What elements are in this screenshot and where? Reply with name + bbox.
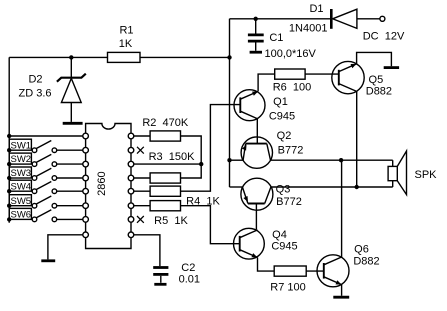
DC 12V terminal [363,16,405,42]
transistor Q1 C945 [234,90,295,123]
resistor R2 470K [142,117,189,141]
junction bus row 6 [7,204,11,208]
wire R7 to Q6 base [306,270,324,272]
svg-text:D2: D2 [28,74,42,86]
diode D1 1N4001 [289,3,357,34]
wire Q3 collector to speaker bottom [271,186,393,188]
wire top-left horizontal from left bus to R1 [9,56,107,58]
node A junction R2/R3/pin3 [199,162,203,166]
wire Q5 emitter up to ground [357,52,392,66]
resistor R3 150K [149,151,196,183]
svg-text:R6 100: R6 100 [273,82,312,94]
node junction R1 wire / vertical rail [227,55,231,59]
unconnected pin marker x on IC pin7R [137,216,144,223]
svg-text:C945: C945 [271,241,297,253]
wire Q5 collector down to speaker bottom wire [356,91,358,187]
node junction Q6 collector / speaker top wire [339,158,343,162]
wire IC pin8R to C2 [134,235,160,266]
+12V vertical rail [229,19,231,187]
wire Q4 emitter down to R7 [258,258,275,272]
zener diode D2 ZD 3.6 [18,57,85,122]
svg-text:Q3: Q3 [276,184,291,196]
transistor Q4 C945 [234,228,298,259]
svg-text:2860: 2860 [96,171,108,195]
svg-text:Q5: Q5 [369,74,384,86]
unconnected pin marker x on IC pin2R [137,147,144,154]
node junction C1 / top rail [254,17,258,21]
wire IC pin6R to R5 [134,205,150,207]
IC U1 2860 body [86,124,131,249]
speaker SPK [388,151,437,195]
switch SW6 [9,208,83,221]
ground at Q5 emitter [384,66,399,69]
wire rail bottom to Q3 emitter [230,186,243,188]
svg-text:R5 1K: R5 1K [154,215,188,227]
capacitor C1 100,0*16V [248,19,317,60]
top supply rail to D1 [230,18,332,20]
switch SW2 [9,153,83,166]
svg-text:Q1: Q1 [273,96,288,108]
wire Q2 collector to speaker top [271,159,393,161]
svg-text:R3 150K: R3 150K [149,151,196,163]
svg-text:R2 470K: R2 470K [142,117,189,129]
wire Q6 collector up to speaker top wire [341,160,343,257]
wire D1 to DC terminal [357,18,380,20]
svg-text:SW3: SW3 [11,168,32,179]
svg-text:SW1: SW1 [11,140,32,151]
wire IC pin8L to ground [48,235,83,260]
ground below C1 [250,51,262,54]
ground below IC pin8L [41,259,55,262]
svg-text:Q4: Q4 [272,229,287,241]
wire R4 up to Q1 base [181,105,241,192]
svg-text:100,0*16V: 100,0*16V [265,48,317,60]
resistor R7 100 [270,266,306,294]
resistor R4 1K [150,186,220,207]
node junction R1 / D2 [69,55,73,59]
svg-text:SW2: SW2 [11,154,32,165]
transistor Q6 D882 [317,244,380,287]
wire Q1 emitter down to Q2 base [256,119,258,144]
switch SW1 [9,139,83,152]
IC left pin circles [83,133,89,237]
svg-text:1K: 1K [119,38,133,50]
junction bus row 1 [7,134,11,138]
ground below C2 [154,283,166,286]
svg-text:B772: B772 [276,196,302,208]
switch SW3 [9,167,83,180]
svg-text:Q2: Q2 [277,130,292,142]
node junction rail / Q2 emitter [227,158,231,162]
wire Q1 collector up to R6 [258,74,275,91]
capacitor C2 0.01 [153,262,200,285]
wire R5 down to Q4 base [181,206,240,244]
IC right pin circles [128,133,134,237]
ground at Q6 emitter [333,296,349,299]
junction bus row 2 [7,148,11,152]
wire bus to IC pin 1 [9,135,83,137]
transistor Q5 D882 [332,61,392,97]
svg-text:SW6: SW6 [11,210,32,221]
svg-text:C1: C1 [269,32,283,44]
transistor Q3 B772 [241,178,302,210]
wire IC pin4R to R3 [134,177,150,179]
svg-text:D882: D882 [353,256,379,268]
junction bus row 5 [7,189,11,193]
svg-text:1N4001: 1N4001 [289,22,328,34]
left bus wire [8,57,10,222]
wire IC pin3R to junction node A [134,163,201,165]
transistor Q2 B772 [241,130,303,168]
wire Q3 base down to Q4 collector [255,204,257,230]
svg-text:SPK: SPK [414,169,437,181]
svg-text:C945: C945 [269,111,295,123]
wire R1 to +12V vertical rail [140,56,230,58]
switch SW5 [9,195,83,208]
wire rail to Q2 emitter [230,159,244,161]
svg-text:R1: R1 [119,25,133,37]
resistor R6 100 [273,69,312,94]
switch SW4 [9,180,83,193]
junction bus row 4 [7,176,11,180]
resistor R5 1K [150,201,188,227]
svg-text:B772: B772 [278,145,304,157]
svg-text:D882: D882 [366,86,392,98]
svg-text:R7 100: R7 100 [270,282,305,294]
node junction Q5 collector / speaker bottom wire [355,185,359,189]
svg-text:C2: C2 [181,262,195,274]
wire IC pin1R to R2 [134,135,150,137]
svg-text:ZD 3.6: ZD 3.6 [18,88,51,100]
wire R6 to Q5 base [305,73,339,75]
svg-text:SW4: SW4 [11,181,32,192]
junction bus row 3 [7,162,11,166]
ground below D2 [63,122,83,125]
wire IC pin5R to R4 [134,190,150,192]
svg-text:D1: D1 [309,3,323,15]
junction bus row 7 [7,217,11,221]
svg-text:SW5: SW5 [11,196,32,207]
svg-text:DC 12V: DC 12V [363,31,405,43]
wire Q6 emitter down to ground [341,285,343,296]
svg-text:Q6: Q6 [354,244,369,256]
wire R2 right down to node A and to R3 [181,136,202,178]
svg-text:0.01: 0.01 [179,273,200,285]
resistor R1 [108,25,141,63]
